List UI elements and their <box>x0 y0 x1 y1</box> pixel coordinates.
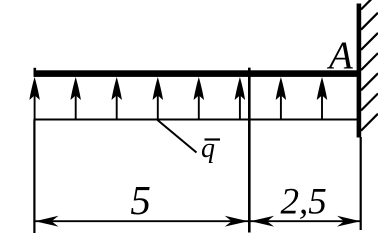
load arrow 6 <box>235 77 245 120</box>
load arrow 4 <box>153 77 163 120</box>
wall <box>357 4 362 138</box>
wall hatch 3 <box>361 33 378 50</box>
dim arrowhead left (5, points left) <box>35 216 59 227</box>
right extension line <box>360 137 362 230</box>
dim arrowhead right (2,5 points right) <box>337 216 361 227</box>
dim arrowhead mid-right (2,5 points left) <box>251 216 275 227</box>
beam <box>34 70 362 77</box>
wall hatch 7 <box>361 114 378 131</box>
beam left end tick <box>34 68 37 72</box>
dim arrowhead mid-left (5, points right) <box>225 216 249 227</box>
svg-text:2,5: 2,5 <box>280 182 326 223</box>
dimension line <box>35 220 361 222</box>
svg-text:A: A <box>326 34 353 77</box>
wall hatch 1 <box>361 0 378 10</box>
wall hatch 4 <box>361 53 378 70</box>
load arrow 7 <box>276 77 286 120</box>
svg-text:5: 5 <box>130 177 151 223</box>
wall hatch 5 <box>361 73 378 90</box>
load arrow 3 <box>112 77 122 120</box>
load arrow 5 <box>194 77 204 120</box>
leader line to q <box>158 120 197 153</box>
load arrow 2 <box>71 77 81 120</box>
wall hatch 2 <box>361 13 378 30</box>
svg-text:q: q <box>201 133 215 164</box>
wall hatch 6 <box>361 94 378 111</box>
mid vertical line (span divider) <box>248 68 251 233</box>
q overline <box>205 138 221 140</box>
left extension line <box>33 120 35 234</box>
load arrow 1 <box>29 77 39 120</box>
load arrow 8 <box>317 77 327 120</box>
load baseline <box>34 119 359 121</box>
